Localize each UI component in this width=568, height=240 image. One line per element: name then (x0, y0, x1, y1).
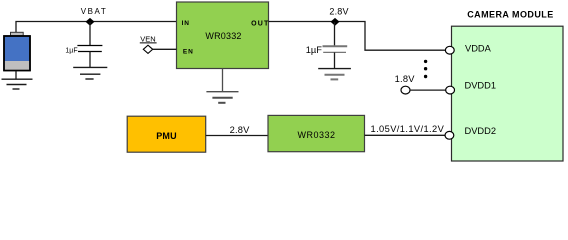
regulator U2 WR0332 (268, 115, 365, 151)
node VBAT (81, 7, 108, 26)
svg-text:1.8V: 1.8V (395, 74, 416, 84)
svg-text:WR0332: WR0332 (205, 31, 241, 41)
wire U2 to DVDD2 (365, 134, 446, 136)
ellipsis dots (424, 60, 427, 79)
ground (battery) (2, 79, 33, 89)
wire battery to ground (15, 71, 17, 79)
pin DVDD1 (446, 86, 455, 94)
svg-text:2.8V: 2.8V (329, 7, 348, 17)
node 2.8V (329, 7, 348, 26)
pin DVDD2 (445, 131, 454, 139)
wire OUT to 2.8V node and down to VDDA level (269, 22, 446, 51)
svg-text:VDDA: VDDA (465, 43, 492, 53)
svg-text:DVDD2: DVDD2 (465, 126, 497, 136)
svg-text:PMU: PMU (156, 131, 177, 141)
wire VEN to EN (153, 48, 177, 50)
ground (input capacitor) (73, 67, 107, 79)
svg-text:CAMERA MODULE: CAMERA MODULE (467, 10, 554, 20)
wire VBAT bus (battery top to U1 IN) (16, 22, 177, 34)
pin label EN (183, 49, 194, 56)
camera module (452, 10, 564, 161)
svg-text:VEN: VEN (140, 34, 155, 43)
svg-text:1µF: 1µF (306, 45, 323, 55)
ground (U1) (206, 92, 238, 103)
net label 1.05V/1.1V/1.2V (371, 124, 445, 134)
pin VDDA (445, 46, 454, 54)
regulator U1 WR0332 (177, 2, 269, 69)
PMU block (127, 116, 206, 152)
svg-text:1µF: 1µF (65, 47, 77, 54)
capacitor 1uF (output) (306, 22, 348, 69)
svg-text:VBAT: VBAT (81, 7, 108, 16)
svg-text:1.05V/1.1V/1.2V: 1.05V/1.1V/1.2V (371, 124, 445, 134)
wire 1.8V to DVDD1 (410, 89, 446, 91)
pin label IN (182, 20, 190, 27)
wire PMU to U2 (206, 135, 268, 137)
ground (output capacitor) (318, 69, 351, 80)
wire U1 to ground (222, 69, 224, 92)
port VEN (140, 34, 157, 53)
svg-text:OUT: OUT (251, 20, 269, 27)
net label 2.8V (PMU output) (230, 125, 251, 135)
svg-text:IN: IN (182, 20, 190, 27)
pin label OUT (251, 20, 269, 27)
svg-text:WR0332: WR0332 (297, 130, 335, 140)
svg-text:DVDD1: DVDD1 (465, 81, 497, 91)
capacitor 1uF (input) (65, 22, 102, 67)
source 1.8V (395, 74, 416, 94)
battery (4, 32, 30, 70)
svg-text:EN: EN (183, 49, 194, 56)
svg-text:2.8V: 2.8V (230, 125, 251, 135)
